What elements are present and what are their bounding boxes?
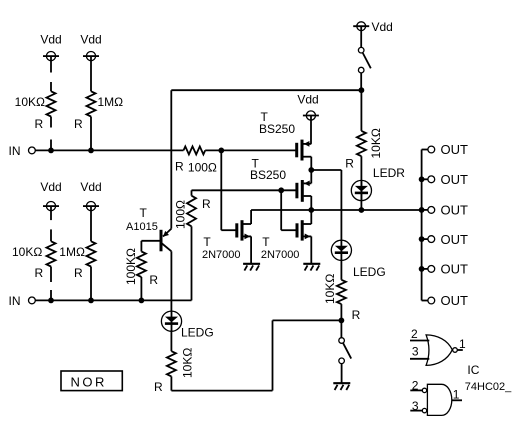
pin label 1 (U1b) <box>453 387 460 401</box>
label 1MOhm (R5) <box>59 245 85 259</box>
Vdd power symbol P6 <box>353 22 369 31</box>
pin label 3 (U1a) <box>412 345 419 359</box>
svg-text:LEDG: LEDG <box>181 326 214 340</box>
wire SW1 to node V1 <box>360 73 362 90</box>
junction M2 (Q2 drain) <box>308 207 314 213</box>
wire R1 lower lead a <box>50 117 52 128</box>
terminal IN2 <box>29 297 36 304</box>
junction node M1 <box>308 167 314 173</box>
svg-text:LEDR: LEDR <box>373 166 405 180</box>
resistor R7 100 (series input 2) <box>187 196 196 227</box>
switch SW1 <box>358 47 370 72</box>
svg-text:A1015: A1015 <box>126 221 158 233</box>
junction node G2 <box>278 187 284 193</box>
junction OUT bus 5 <box>419 266 425 272</box>
wire R9 to node S1 <box>340 304 342 338</box>
svg-text:10KΩ: 10KΩ <box>369 128 383 158</box>
label R (R10) <box>154 380 163 394</box>
label 100Ohm (R7) <box>174 200 188 229</box>
label Vdd (P1) <box>40 33 61 47</box>
svg-text:10KΩ: 10KΩ <box>323 274 337 304</box>
label T (Q2) <box>252 156 260 170</box>
svg-text:2N7000: 2N7000 <box>261 249 300 261</box>
wire M1 to mid chain <box>311 169 341 171</box>
svg-text:IC: IC <box>467 363 479 377</box>
svg-text:2: 2 <box>411 327 418 341</box>
wire G1 drop <box>220 150 222 230</box>
svg-text:Vdd: Vdd <box>372 20 393 34</box>
junction IN2-R4 <box>48 298 54 304</box>
ground GND3 <box>333 383 350 390</box>
wire Q2 source riser <box>310 170 312 183</box>
wire output rail <box>251 209 422 211</box>
junction IN2-R5 <box>88 298 94 304</box>
resistor R6 100K <box>137 252 146 278</box>
wire P6 to SW1 <box>360 26 362 47</box>
terminal OUT4 <box>422 236 435 243</box>
label 10KOhm (R10) <box>181 348 195 378</box>
svg-text:R: R <box>154 380 163 394</box>
resistor R3 100 (series input 1) <box>184 146 206 154</box>
label R (R3) <box>175 159 184 173</box>
wire G2 to Q4 gate <box>281 229 296 231</box>
wire to node S1 <box>273 319 342 321</box>
terminal OUT3 <box>422 207 435 214</box>
label A1015 (Q5) <box>126 221 158 233</box>
gate U1b NOR (AND form) <box>410 384 462 415</box>
wire P5 to Q1 source <box>310 116 312 144</box>
pin label 1 (U1a) <box>459 337 466 351</box>
label R (R7) <box>202 197 211 211</box>
label R (R5) <box>74 266 83 280</box>
junction R6-IN2 <box>139 298 145 304</box>
svg-text:10KΩ: 10KΩ <box>12 245 42 259</box>
Vdd power symbol P4 <box>83 202 99 242</box>
wire Q5 collector drop <box>170 251 172 311</box>
svg-text:R: R <box>149 273 158 287</box>
wire Q3 source drop <box>250 236 252 263</box>
svg-text:Vdd: Vdd <box>80 33 101 47</box>
label T (Q5) <box>140 206 148 220</box>
wire R7 top lead <box>191 190 193 195</box>
resistor R9 10K <box>337 280 346 304</box>
wire base to R6 <box>140 241 142 252</box>
wire G1 to Q3 gate <box>221 229 236 231</box>
switch SW2 <box>339 338 351 364</box>
wire IN2 net <box>35 299 191 301</box>
svg-text:10KΩ: 10KΩ <box>15 95 45 109</box>
svg-text:OUT: OUT <box>441 232 469 247</box>
resistor R8 10K <box>357 131 366 156</box>
junction node G1 <box>218 148 224 154</box>
terminal IN1 <box>29 147 36 154</box>
wire R3 to Q1 gate <box>205 149 296 151</box>
svg-text:BS250: BS250 <box>259 122 295 136</box>
svg-text:1MΩ: 1MΩ <box>98 95 124 109</box>
wire D3 to R10 <box>170 331 172 351</box>
svg-text:LEDG: LEDG <box>353 265 386 279</box>
svg-text:T: T <box>203 235 211 249</box>
label BS250 (Q1) <box>259 122 295 136</box>
wire Q4 drain riser <box>310 210 312 224</box>
junction OUT bus 3 <box>419 207 425 213</box>
svg-text:IN: IN <box>9 144 21 158</box>
pin label 2 (U1b) <box>412 378 419 392</box>
resistor R4 10K <box>47 241 56 266</box>
label IN (input 2) <box>9 294 21 308</box>
svg-text:R: R <box>352 308 361 322</box>
label R (R2) <box>74 117 83 131</box>
NOR function box <box>61 371 122 391</box>
svg-text:100Ω: 100Ω <box>174 200 188 229</box>
wire node G2 run <box>192 189 297 191</box>
label LEDR (D1) <box>373 166 405 180</box>
terminal OUT6 <box>422 297 435 304</box>
label IN (input 1) <box>9 144 21 158</box>
wire mid chain drop <box>340 170 342 240</box>
terminal OUT2 <box>422 176 435 183</box>
label NOR <box>71 374 107 389</box>
wire Q3 drain riser <box>250 210 252 224</box>
wire IN1 net <box>35 149 183 151</box>
Vdd power symbol P3 <box>43 202 59 221</box>
transistor Q3 2N7000 <box>237 220 251 240</box>
label 100KOhm (R6) <box>124 248 138 285</box>
label 10KOhm (R9) <box>323 274 337 304</box>
svg-text:Vdd: Vdd <box>80 180 101 194</box>
wire V1 to R8 <box>360 90 362 131</box>
label OUT (OUT6) <box>441 293 469 308</box>
terminal OUT5 <box>422 266 435 273</box>
svg-text:T: T <box>140 206 148 220</box>
wire R5 lower lead <box>90 267 92 301</box>
svg-text:BS250: BS250 <box>250 168 286 182</box>
label T (Q4) <box>262 235 270 249</box>
wire R4 lower lead a <box>50 267 52 283</box>
Vdd power symbol P2 <box>83 52 99 92</box>
wire Q4 source drop <box>310 236 312 263</box>
svg-text:1: 1 <box>459 337 466 351</box>
Vdd power symbol P1 <box>43 52 59 73</box>
svg-text:OUT: OUT <box>441 203 469 218</box>
label 2N7000 (Q4) <box>261 249 300 261</box>
wire Q1 drain drop <box>310 157 312 170</box>
svg-text:OUT: OUT <box>441 262 469 277</box>
svg-text:100Ω: 100Ω <box>188 160 217 174</box>
svg-text:OUT: OUT <box>441 172 469 187</box>
svg-text:R: R <box>345 157 354 171</box>
label LEDG (D3) <box>181 326 214 340</box>
svg-text:1: 1 <box>453 387 460 401</box>
label Vdd (P3) <box>40 180 61 194</box>
label R (R9) <box>352 308 361 322</box>
label OUT (OUT2) <box>441 172 469 187</box>
wire Q2 drain drop <box>310 196 312 210</box>
ground GND1 <box>243 264 260 271</box>
wire R4 lower lead b <box>50 290 52 300</box>
label R (R6) <box>149 273 158 287</box>
label OUT (OUT5) <box>441 262 469 277</box>
label Vdd (P6) <box>372 20 393 34</box>
svg-text:R: R <box>74 266 83 280</box>
wire SW2 to ground <box>341 364 343 384</box>
label 10KOhm (R1) <box>15 95 45 109</box>
wire R10 down <box>170 376 172 390</box>
label R (R8) <box>345 157 354 171</box>
svg-text:NOR: NOR <box>71 374 107 389</box>
wire OUT bus <box>421 150 423 301</box>
gate U1a NOR (OR form) <box>410 335 463 366</box>
svg-text:T: T <box>262 235 270 249</box>
wire G2 drop <box>280 190 282 230</box>
wire R8 to D1 <box>360 156 362 210</box>
svg-text:74HC02_: 74HC02_ <box>465 381 512 393</box>
svg-text:2N7000: 2N7000 <box>202 249 241 261</box>
label 1MOhm (R2) <box>98 95 124 109</box>
label R (R1) <box>35 117 44 131</box>
wire IN2 riser <box>191 226 193 300</box>
junction node V1 <box>359 87 365 93</box>
label OUT (OUT4) <box>441 232 469 247</box>
label T (Q1) <box>261 110 269 124</box>
resistor R5 1M <box>87 241 96 266</box>
svg-text:R: R <box>175 159 184 173</box>
wire D2 to R9 <box>340 260 342 279</box>
LED D2 LEDG <box>331 240 351 260</box>
svg-text:100KΩ: 100KΩ <box>124 248 138 285</box>
LED D1 LEDR <box>351 180 371 200</box>
label T (Q3) <box>203 235 211 249</box>
junction OUT bus 4 <box>419 236 425 242</box>
junction IN1-R1 <box>48 148 54 154</box>
svg-text:R: R <box>202 197 211 211</box>
junction IN1-R2 <box>88 148 94 154</box>
wire R2 lower lead <box>90 117 92 151</box>
label BS250 (Q2) <box>250 168 286 182</box>
label 100Ohm (R3) <box>188 160 217 174</box>
transistor Q2 BS250 <box>297 180 311 202</box>
svg-text:3: 3 <box>412 345 419 359</box>
ground GND2 <box>303 264 320 271</box>
wire R1 lower lead b <box>50 140 52 151</box>
junction D1-output rail <box>359 207 365 213</box>
svg-text:Vdd: Vdd <box>297 92 318 106</box>
label 10KOhm (R4) <box>12 245 42 259</box>
svg-text:OUT: OUT <box>441 142 469 157</box>
wire R6 to IN2 <box>140 277 142 300</box>
wire emitter riser <box>170 90 172 228</box>
wire P1 to R1 (broken lead) <box>50 82 52 91</box>
label Vdd (P4) <box>80 180 101 194</box>
svg-text:10KΩ: 10KΩ <box>181 348 195 378</box>
svg-text:R: R <box>35 117 44 131</box>
pin label 2 (U1a) <box>411 327 418 341</box>
label 2N7000 (Q3) <box>202 249 241 261</box>
resistor R1 10K <box>47 91 56 116</box>
junction node S1 <box>339 318 345 324</box>
Vdd power symbol P5 <box>297 92 319 120</box>
svg-text:OUT: OUT <box>441 293 469 308</box>
svg-text:R: R <box>35 266 44 280</box>
terminal OUT1 <box>422 146 435 153</box>
transistor Q1 BS250 <box>297 140 312 161</box>
label R (R4) <box>35 266 44 280</box>
LED D3 LEDG <box>161 311 181 331</box>
junction OUT bus 2 <box>419 176 425 182</box>
wire P3 to R4 (broken lead) <box>50 229 52 241</box>
wire bottom riser <box>272 320 274 390</box>
svg-text:R: R <box>74 117 83 131</box>
svg-text:1MΩ: 1MΩ <box>59 245 85 259</box>
label LEDG (D2) <box>353 265 386 279</box>
label OUT (OUT3) <box>441 203 469 218</box>
svg-text:Vdd: Vdd <box>40 33 61 47</box>
label OUT (OUT1) <box>441 142 469 157</box>
resistor R2 1M <box>87 91 96 116</box>
wire bottom run <box>171 390 272 392</box>
pin label 3 (U1b) <box>412 399 419 413</box>
label 74HC02_ <box>465 381 512 393</box>
label 10KOhm (R8) <box>369 128 383 158</box>
label Vdd (P2) <box>80 33 101 47</box>
label IC <box>467 363 479 377</box>
transistor Q4 2N7000 <box>297 220 311 240</box>
wire V1 horizontal run <box>171 89 361 91</box>
svg-text:Vdd: Vdd <box>40 180 61 194</box>
svg-text:IN: IN <box>9 294 21 308</box>
resistor R10 10K <box>167 351 176 376</box>
transistor Q5 A1015 <box>141 229 171 252</box>
